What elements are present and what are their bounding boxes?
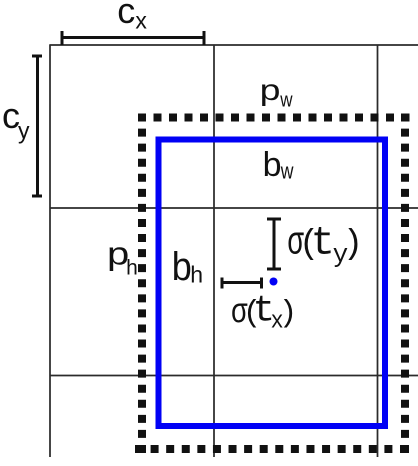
grid vertical line right — [377, 45, 379, 458]
cx measure line — [62, 31, 205, 45]
svg-text:y: y — [18, 117, 30, 143]
prior box bottom edge (dotted) — [135, 445, 409, 453]
sigma(tx) measure I-beam — [221, 278, 263, 289]
svg-text:p: p — [260, 73, 281, 107]
svg-text:w: w — [280, 160, 294, 184]
prior box right edge (dotted) — [401, 114, 409, 454]
svg-text:): ) — [343, 226, 363, 264]
sigma(ty) measure I-beam — [267, 219, 281, 269]
svg-text:b: b — [172, 245, 192, 289]
svg-text:b: b — [263, 146, 282, 184]
svg-text:h: h — [126, 257, 138, 280]
predicted box (blue) — [159, 140, 386, 427]
svg-text:): ) — [279, 296, 298, 331]
grid horizontal line bottom — [50, 375, 418, 377]
center point (blue dot) — [270, 278, 278, 286]
svg-text:t: t — [311, 221, 335, 266]
grid horizontal line middle — [50, 207, 418, 209]
svg-text:h: h — [190, 262, 203, 288]
grid horizontal line top — [50, 44, 418, 46]
grid vertical line left — [49, 45, 51, 458]
grid vertical line middle — [213, 45, 215, 458]
svg-text:w: w — [279, 88, 293, 111]
svg-text:c: c — [117, 0, 135, 31]
prior box top edge (dotted) — [138, 114, 410, 122]
prior box left edge (dotted) — [138, 114, 146, 454]
cy measure line — [32, 56, 42, 197]
svg-text:x: x — [135, 8, 147, 34]
